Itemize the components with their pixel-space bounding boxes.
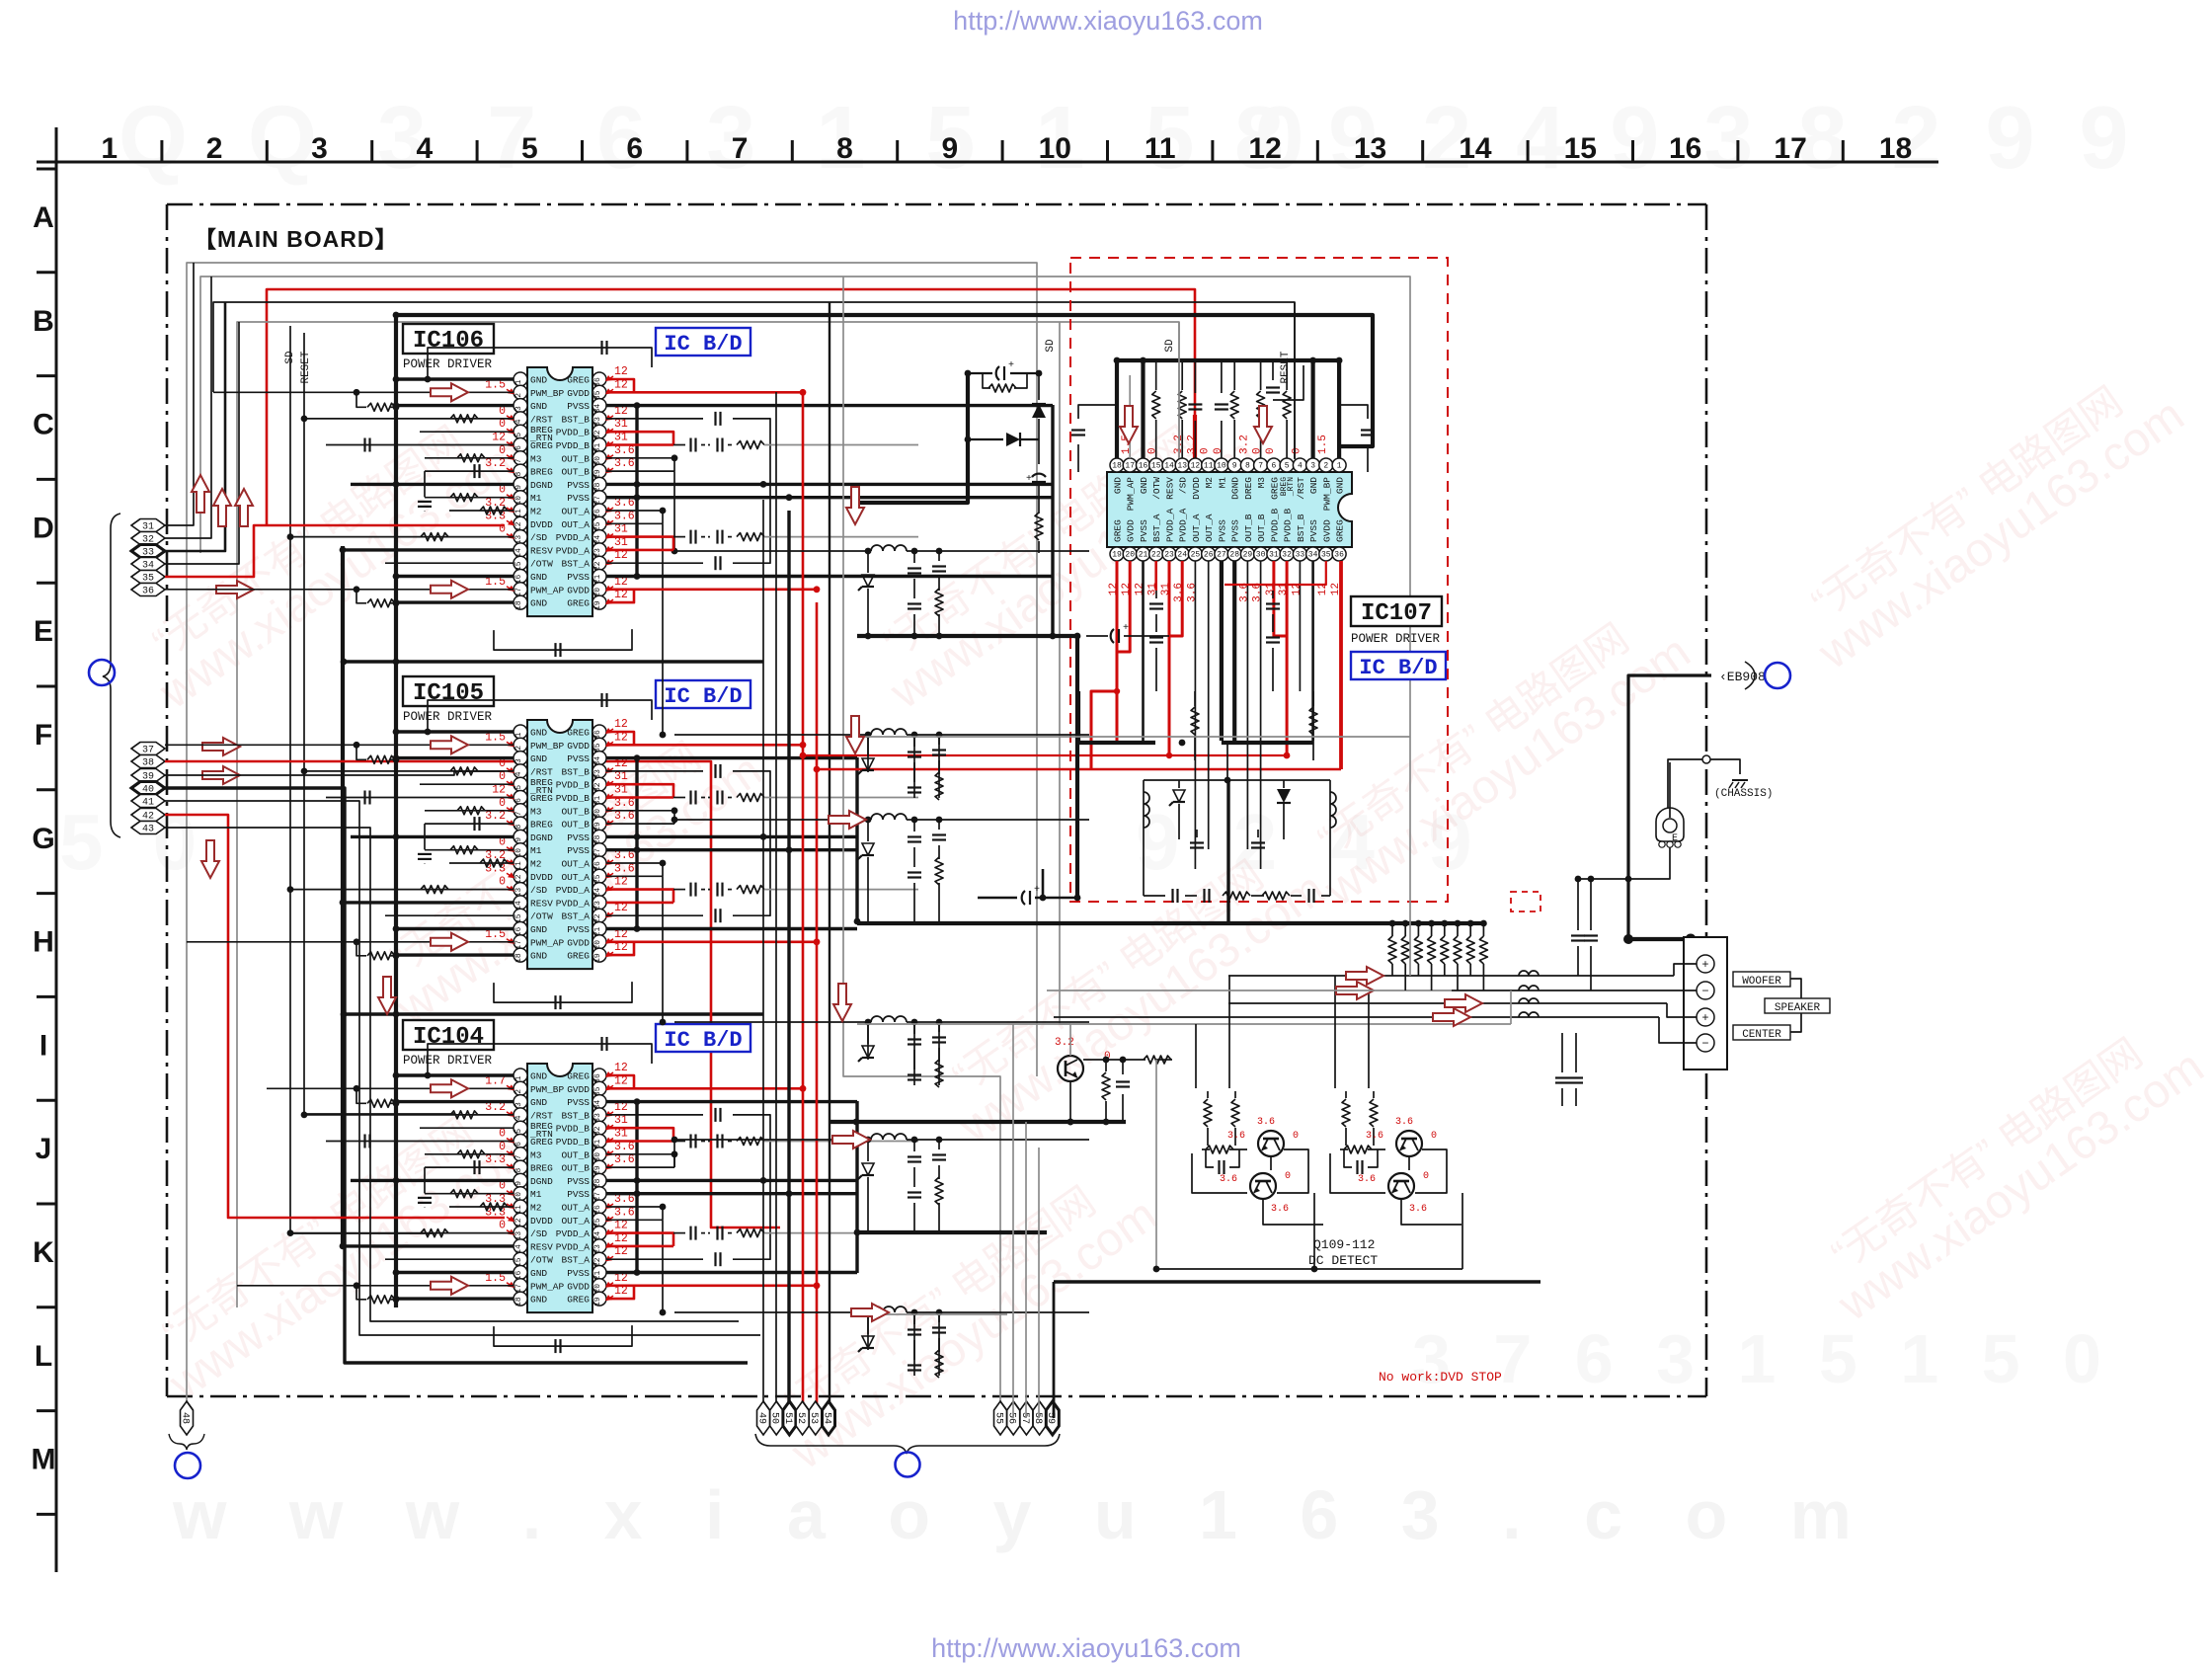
svg-text:GVDD: GVDD <box>1321 519 1332 542</box>
ladder resistor 2 <box>1402 920 1409 927</box>
IC107 pin 4 /RST <box>1293 458 1306 472</box>
dc detect pair B transistor lower <box>1388 1173 1414 1199</box>
IC104 pin 26 OUT_A <box>592 1200 606 1214</box>
IC107 pin 5 BREG <box>1280 458 1294 472</box>
svg-text:11: 11 <box>1145 132 1176 165</box>
IC106 pin 6 GREG <box>513 438 527 452</box>
chassis link <box>1702 755 1710 763</box>
svg-text:DGND: DGND <box>530 1176 553 1187</box>
IC106 pin31 rc chain <box>673 444 685 446</box>
IC105 pin 9 DGND <box>513 830 527 843</box>
svg-text:IC104: IC104 <box>413 1024 484 1051</box>
IC104 pin 14 RESV <box>513 1239 527 1253</box>
svg-text:3.6: 3.6 <box>1358 1174 1376 1185</box>
svg-text:PVSS: PVSS <box>567 480 590 491</box>
svg-text:GND: GND <box>1113 477 1124 494</box>
IC105 wire pin10 m1 <box>425 849 513 851</box>
IC104 pvss collector <box>855 1101 858 1273</box>
connector pin 59 <box>1045 1401 1059 1435</box>
svg-text:6: 6 <box>514 1142 523 1147</box>
IC104 pin 3 GND <box>513 1095 527 1109</box>
svg-text:16: 16 <box>1669 132 1701 165</box>
svg-text:G: G <box>32 823 54 855</box>
svg-text:SPEAKER: SPEAKER <box>1775 1002 1821 1014</box>
svg-text:7: 7 <box>514 811 523 816</box>
earth wire <box>1669 762 1671 818</box>
IC107 pin 23 PVDD_A <box>1162 547 1176 561</box>
IC104 pin31 rc chain <box>673 1141 685 1143</box>
svg-text:22: 22 <box>1151 551 1161 560</box>
IC106 wire pin16 gnd <box>396 575 513 578</box>
IC104 wire pin6 greg <box>326 1141 513 1143</box>
IC107 diode b <box>1277 789 1291 803</box>
IC104 bottom loop <box>494 1325 632 1346</box>
ruler horizontal line <box>37 161 1938 164</box>
IC107 bot 25 <box>1194 561 1196 869</box>
svg-text:OUT_A: OUT_A <box>561 872 590 883</box>
svg-text:PVDD_A: PVDD_A <box>556 532 591 543</box>
IC106 pin17 stub res <box>356 590 366 603</box>
IC105 wire pin20 gvdd <box>606 940 817 943</box>
IC104 pvss bus <box>635 1102 638 1273</box>
svg-text:OUT_B: OUT_B <box>1256 514 1267 542</box>
IC107 pin 12 DVDD <box>1188 458 1202 472</box>
IC105 wire pin35 gvdd <box>606 744 803 747</box>
IC105 pin 32 PVDD_B <box>592 777 606 791</box>
IC104 wire pin21 pvss <box>606 1271 637 1274</box>
speaker terminal 2 <box>1697 982 1714 999</box>
IC107 pin 17 PWM_AP <box>1123 458 1137 472</box>
svg-text:3.3: 3.3 <box>485 1193 506 1206</box>
IC107 pin 2 PWM_BP <box>1319 458 1333 472</box>
IC107 pin 29 OUT_B <box>1240 547 1254 561</box>
IC106 pin 5 BREG <box>513 425 527 438</box>
svg-text:4: 4 <box>514 771 523 776</box>
IC107 gnd stub <box>1310 360 1314 458</box>
svg-text:3.2: 3.2 <box>485 457 506 470</box>
IC106 arrow pin2 <box>431 383 468 401</box>
filter ch1 bus dots <box>865 633 872 640</box>
IC107 pin 7 M3 <box>1254 458 1268 472</box>
IC104 pin 35 GVDD <box>592 1081 606 1095</box>
IC106 wire pin2 pwm_bp <box>213 391 513 393</box>
IC106 bottom loop <box>494 629 632 650</box>
svg-text:/OTW: /OTW <box>530 559 553 570</box>
watermark pink 2 <box>361 709 771 1036</box>
IC107 pin 9 DGND <box>1227 458 1241 472</box>
svg-text:GVDD: GVDD <box>567 937 590 948</box>
wire thick bus top <box>396 315 1373 446</box>
svg-text:M3: M3 <box>1256 477 1267 489</box>
ladder resistor 3 <box>1415 920 1422 927</box>
svg-text:IC B/D: IC B/D <box>1359 656 1437 680</box>
arrow up a <box>192 475 209 513</box>
IC107 pin 13 /SD <box>1175 458 1189 472</box>
svg-text:56: 56 <box>1006 1412 1017 1424</box>
svg-text:RESV: RESV <box>530 1241 553 1252</box>
svg-text:3.6: 3.6 <box>614 457 635 470</box>
svg-text:31: 31 <box>614 1114 628 1127</box>
svg-text:8: 8 <box>514 472 523 477</box>
svg-text:38: 38 <box>142 758 154 769</box>
svg-text:Q Q 3 7 6 3 1 5 1 5 0: Q Q 3 7 6 3 1 5 1 5 0 <box>118 89 1322 188</box>
IC106 pin 22 BST_A <box>592 556 606 570</box>
connector pin 57 <box>1019 1401 1033 1435</box>
svg-text:PVSS: PVSS <box>567 924 590 935</box>
IC105 pin 33 BST_B <box>592 764 606 778</box>
arrow down left1 <box>201 840 219 878</box>
svg-text:3: 3 <box>1310 462 1315 471</box>
svg-text:K: K <box>33 1236 54 1269</box>
filter ch5 bus <box>857 1230 1047 1234</box>
svg-text:A: A <box>33 201 54 234</box>
svg-text:IC B/D: IC B/D <box>664 332 742 356</box>
IC104 out_b vert <box>673 1154 675 1167</box>
IC107 pin stub res <box>1181 360 1183 390</box>
svg-text:8: 8 <box>514 1168 523 1173</box>
svg-text:PWM_BP: PWM_BP <box>530 1084 565 1095</box>
svg-text:DGND: DGND <box>1230 477 1241 500</box>
svg-text:19: 19 <box>593 600 602 610</box>
filter ch4 cap col2 <box>938 1022 940 1032</box>
filter ch5 inductor <box>871 1134 907 1140</box>
svg-text:1: 1 <box>514 379 523 384</box>
wire 39 <box>165 771 505 775</box>
IC107 pin stub cap <box>1194 360 1196 393</box>
svg-text:48: 48 <box>179 1412 190 1424</box>
connector pin 40 <box>131 782 165 796</box>
IC105 pin 21 PVSS <box>592 922 606 936</box>
svg-text:11: 11 <box>1204 462 1214 471</box>
svg-text:25: 25 <box>1191 551 1201 560</box>
IC105 wire pin36 greg <box>606 732 634 745</box>
IC106 pvss collector <box>1051 405 1054 636</box>
svg-text:1: 1 <box>101 132 118 165</box>
wire gnd trunk vertical <box>394 315 398 1307</box>
dc detect mid bus <box>1156 1268 1462 1270</box>
svg-text:GND: GND <box>530 598 547 609</box>
svg-text:0: 0 <box>1213 447 1224 454</box>
IC104 pin17 stub res <box>356 1286 366 1300</box>
arrow 39 <box>202 766 240 784</box>
svg-text:20: 20 <box>1125 551 1135 560</box>
svg-text:M2: M2 <box>530 859 542 870</box>
IC107 arrow down left <box>1120 406 1138 443</box>
Q108 wiring <box>1083 1059 1145 1061</box>
svg-text:IC107: IC107 <box>1361 600 1432 627</box>
svg-text:3.6: 3.6 <box>614 510 635 522</box>
ruler vertical line <box>55 127 58 1572</box>
IC105 pin 2 PWM_BP <box>513 738 527 752</box>
IC104 pin 30 OUT_B <box>592 1148 606 1161</box>
svg-text:PVSS: PVSS <box>567 493 590 504</box>
IC107 pin 36 GREG <box>1332 547 1346 561</box>
svg-text:GREG: GREG <box>567 1071 590 1082</box>
svg-text:43: 43 <box>142 825 154 835</box>
IC104 pin 32 PVDD_B <box>592 1121 606 1135</box>
svg-text:1: 1 <box>514 1075 523 1080</box>
IC106 pin23 rc chain <box>673 536 685 538</box>
svg-text:+: + <box>1123 623 1129 634</box>
IC105 pin17 stub res <box>356 942 366 956</box>
svg-text:PWM_BP: PWM_BP <box>530 388 565 399</box>
trunk thick c <box>787 511 790 1418</box>
IC105 pin 6 GREG <box>513 791 527 805</box>
svg-text:GVDD: GVDD <box>567 1084 590 1095</box>
svg-text:/RST: /RST <box>530 1110 553 1121</box>
svg-text:12: 12 <box>492 432 506 444</box>
svg-text:CENTER: CENTER <box>1742 1029 1781 1041</box>
IC104 wire pin11 m2 <box>449 1206 513 1208</box>
IC106 wire pin31 <box>606 443 673 446</box>
IC IC105 label box <box>403 676 494 706</box>
IC106 wire pin18 gnd <box>396 600 513 603</box>
svg-text:0: 0 <box>499 770 506 783</box>
svg-text:PVDD_A: PVDD_A <box>1165 508 1176 542</box>
svg-text:OUT_B: OUT_B <box>561 467 590 478</box>
IC107 bot red 19 <box>1116 561 1119 743</box>
IC107 bot 21 <box>1142 561 1145 741</box>
IC IC104 body <box>527 1064 592 1312</box>
svg-text:57: 57 <box>1019 1412 1030 1424</box>
arrow down left2 <box>378 977 396 1014</box>
svg-text:19: 19 <box>593 953 602 963</box>
snubber res v <box>1035 513 1043 540</box>
svg-text:7: 7 <box>514 1154 523 1159</box>
arrow down f1 <box>846 487 864 524</box>
IC104 pin 24 PVDD_A <box>592 1227 606 1240</box>
IC106 pin 13 /SD <box>513 530 527 544</box>
chassis ground <box>1732 779 1748 781</box>
IC IC107 type label <box>1351 652 1446 679</box>
IC105 pin 11 M2 <box>513 856 527 870</box>
arrow up c <box>235 489 253 526</box>
svg-text:15: 15 <box>1564 132 1597 165</box>
IC IC107 label box <box>1351 596 1442 626</box>
IC105 top loop <box>428 700 652 732</box>
IC105 pvss ext 28 <box>763 835 857 838</box>
svg-text:9: 9 <box>514 485 523 490</box>
filter ch2 cap col1 <box>913 735 915 747</box>
IC106 pvss ext 28 <box>763 483 1053 486</box>
IC105 pin 25 OUT_A <box>592 869 606 883</box>
ladder resistor 7 <box>1467 920 1474 927</box>
svg-text:31: 31 <box>614 523 628 536</box>
svg-text:/SD: /SD <box>530 532 547 543</box>
IC106 pin 11 M2 <box>513 504 527 517</box>
svg-text:35: 35 <box>1321 551 1331 560</box>
IC104 wire pin24 <box>606 1233 673 1246</box>
svg-text:12: 12 <box>492 784 506 797</box>
IC106 wire pin32 <box>606 432 673 444</box>
IC107 bot res col2 <box>1309 707 1317 735</box>
svg-text:GREG: GREG <box>1269 477 1280 500</box>
IC104 cap aux <box>418 1197 432 1199</box>
IC107 pin 21 PVSS <box>1137 547 1150 561</box>
svg-text:/SD: /SD <box>530 1228 547 1239</box>
svg-text:PVSS: PVSS <box>567 572 590 583</box>
connector pin 50 <box>769 1401 783 1435</box>
svg-text:PVSS: PVSS <box>567 401 590 412</box>
IC106 wire pin29 <box>606 470 674 472</box>
IC106 pin 21 PVSS <box>592 570 606 584</box>
IC107 zener a <box>1173 790 1185 802</box>
svg-text:DVDD: DVDD <box>1191 477 1202 500</box>
IC106 pin 23 PVDD_A <box>592 543 606 557</box>
IC107 pin 25 OUT_A <box>1188 547 1202 561</box>
IC105 pin 29 OUT_B <box>592 817 606 831</box>
red rail lower <box>817 768 1341 771</box>
svg-text:M1: M1 <box>530 493 542 504</box>
IC107 pin 19 GREG <box>1110 547 1124 561</box>
svg-text:OUT_B: OUT_B <box>561 806 590 817</box>
IC107 pin 24 PVDD_A <box>1175 547 1189 561</box>
svg-text:12: 12 <box>614 365 628 378</box>
svg-text:PVDD_B: PVDD_B <box>556 793 591 804</box>
IC106 pin 17 PWM_AP <box>513 583 527 596</box>
svg-text:PVSS: PVSS <box>1217 519 1227 542</box>
connector pin 38 <box>131 755 165 769</box>
svg-text:0: 0 <box>1293 1131 1299 1142</box>
svg-text:3.2: 3.2 <box>1238 435 1250 454</box>
IC107 top cap <box>1272 360 1274 380</box>
connector pin 48 <box>179 1401 193 1435</box>
IC106 wire pin23 <box>606 549 673 552</box>
IC105 wire pin31 <box>606 796 673 799</box>
IC107 left cap <box>1077 444 1079 472</box>
IC105 wire pin23 <box>606 902 673 905</box>
svg-text:http://www.xiaoyu163.com: http://www.xiaoyu163.com <box>953 6 1263 36</box>
IC105 wire pin3 gnd <box>396 756 513 759</box>
IC106 wire pin21 pvss <box>606 575 637 578</box>
svg-text:3: 3 <box>514 406 523 411</box>
connector pin 56 <box>1006 1401 1020 1435</box>
svg-text:IC B/D: IC B/D <box>664 1028 742 1053</box>
trunk red e <box>816 602 819 1418</box>
IC105 pin 10 M1 <box>513 843 527 857</box>
svg-text:GREG: GREG <box>1113 519 1124 542</box>
IC105 wire pin29 <box>606 823 674 825</box>
svg-text:C: C <box>33 409 54 441</box>
snubber net left <box>856 373 968 503</box>
IC105 pin31 rc chain <box>673 797 685 799</box>
connector pin 58 <box>1032 1401 1046 1435</box>
svg-text:6: 6 <box>626 132 643 165</box>
IC105 pin 17 PWM_AP <box>513 935 527 949</box>
filter ch3 cap col1 <box>913 820 915 831</box>
filter ch6 bus <box>857 1313 1007 1315</box>
svg-text:OUT_A: OUT_A <box>561 1216 590 1227</box>
IC104 wire pin1 gnd <box>396 1073 513 1076</box>
svg-text:OUT_B: OUT_B <box>561 1149 590 1160</box>
IC106 cap aux <box>418 501 432 503</box>
watermark pink 6 <box>756 1153 1166 1480</box>
filter ch1 cap col1 <box>913 551 915 563</box>
dc detect out bus <box>1054 1280 1540 1284</box>
svg-text:0: 0 <box>1200 447 1212 454</box>
svg-text:PVDD_B: PVDD_B <box>556 780 591 791</box>
svg-text:3.2: 3.2 <box>485 810 506 823</box>
IC106 out_b vert <box>673 458 675 471</box>
IC106 wire pin3 gnd <box>396 404 513 407</box>
IC105 wire pin13 sd <box>290 889 513 891</box>
IC107 pin stub res <box>1233 360 1235 390</box>
IC106 wire pin11 m2 <box>449 510 513 512</box>
IC107 arrow down right <box>1254 406 1272 443</box>
IC106 pvss to trunk <box>637 483 763 486</box>
speaker caps a <box>1577 879 1579 930</box>
svg-text:+: + <box>1008 360 1014 371</box>
svg-text:3.6: 3.6 <box>1409 1204 1427 1215</box>
arrow down f2 <box>846 716 864 753</box>
IC104 pin 7 M3 <box>513 1148 527 1161</box>
svg-text:12: 12 <box>614 1062 628 1074</box>
svg-text:PVSS: PVSS <box>1230 519 1241 542</box>
svg-text:DREG: DREG <box>1243 477 1254 500</box>
IC104 wire pin15 otw <box>385 1258 513 1260</box>
IC106 wire pin9 dgnd <box>351 483 513 486</box>
svg-text:28: 28 <box>1229 551 1239 560</box>
dc detect pair B wires <box>1330 1153 1385 1193</box>
IC105 bottom loop <box>494 982 632 1002</box>
IC106 pin 16 GND <box>513 570 527 584</box>
IC107 lower net frame <box>1144 779 1330 781</box>
IC105 pvss ext 34 <box>637 756 857 759</box>
svg-text:IC106: IC106 <box>413 328 484 355</box>
svg-text:BST_A: BST_A <box>561 1255 590 1266</box>
IC106 wire pin7 m3 <box>425 457 513 459</box>
IC106 pin 28 PVSS <box>592 477 606 491</box>
IC105 out_a vert <box>662 863 664 876</box>
IC107 pin stub res <box>1155 360 1157 390</box>
svg-text:0: 0 <box>1423 1171 1429 1182</box>
svg-text:RESV: RESV <box>1165 477 1176 500</box>
svg-text:PVSS: PVSS <box>567 832 590 843</box>
svg-text:0: 0 <box>1252 447 1264 454</box>
IC104 arrow pin17 <box>431 1277 468 1295</box>
IC107 bot 26 <box>1208 561 1210 849</box>
IC106 pin 7 M3 <box>513 451 527 465</box>
svg-text:POWER DRIVER: POWER DRIVER <box>403 1054 493 1068</box>
IC106 out_b drop <box>673 471 675 551</box>
connector pin 34 <box>131 558 165 572</box>
IC107 right cap <box>1367 444 1369 472</box>
svg-text:5 0: 5 0 <box>59 798 210 886</box>
speaker trunk thick <box>1628 675 1711 939</box>
IC104 pin 34 PVSS <box>592 1095 606 1109</box>
IC104 wire pin27 pvss <box>606 1192 637 1195</box>
svg-text:PVDD_B: PVDD_B <box>556 428 591 438</box>
svg-text:31: 31 <box>614 770 628 783</box>
svg-text:Q109-112: Q109-112 <box>1313 1237 1375 1252</box>
brace bottom <box>755 1434 1060 1454</box>
IC105 wire pin7 m3 <box>425 810 513 812</box>
svg-text:0: 0 <box>499 1220 506 1232</box>
svg-text:I: I <box>39 1029 47 1062</box>
IC107 pin 31 PVDD_B <box>1267 547 1281 561</box>
filter ch2 zener <box>862 758 874 770</box>
IC104 wire pin30 <box>606 1153 674 1155</box>
svg-text:M: M <box>32 1444 56 1476</box>
svg-text:BST_B: BST_B <box>1296 514 1306 542</box>
svg-text:GVDD: GVDD <box>567 1281 590 1292</box>
trunk thin a <box>762 500 764 1418</box>
svg-text:12: 12 <box>1248 132 1281 165</box>
svg-text:J: J <box>36 1133 52 1165</box>
svg-text:【MAIN BOARD】: 【MAIN BOARD】 <box>194 226 399 252</box>
svg-text:/RST: /RST <box>530 414 553 425</box>
svg-text:0: 0 <box>1291 447 1303 454</box>
